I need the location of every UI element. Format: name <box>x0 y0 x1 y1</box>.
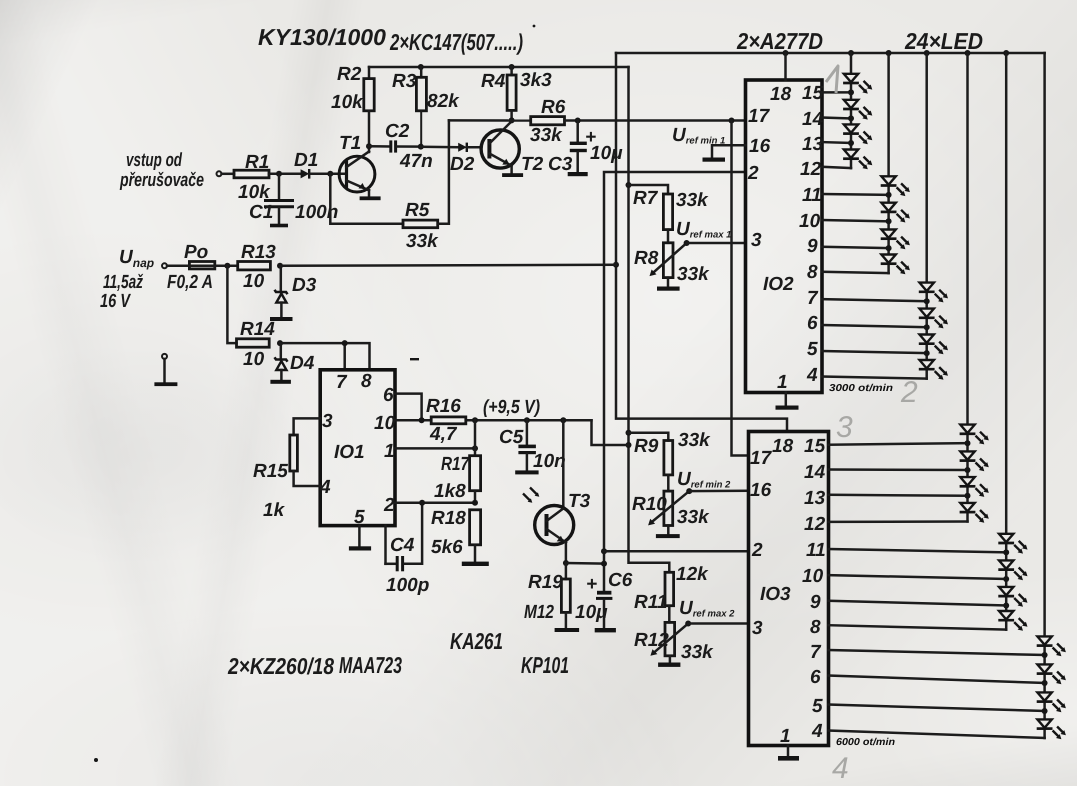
ground D4 <box>270 380 291 384</box>
wire IC102 pin10 <box>822 218 892 224</box>
IC IO2 A277D <box>746 80 824 393</box>
LED 9 <box>919 283 948 303</box>
IO1 pin2 wire <box>395 500 478 506</box>
wire IC103 pin2 <box>604 550 749 553</box>
LED 20 <box>998 611 1027 631</box>
svg-text:(+9,5 V): (+9,5 V) <box>483 397 540 418</box>
capacitor C4 <box>386 503 430 596</box>
wire IC103 pin14 <box>829 467 971 473</box>
svg-text:IO1: IO1 <box>334 442 365 463</box>
trimmer R10 <box>632 469 731 534</box>
svg-text:C5: C5 <box>499 427 524 448</box>
LED 18 <box>998 560 1027 580</box>
LED 1 <box>843 74 872 94</box>
wire IC103 pin12 <box>829 520 968 523</box>
svg-text:2: 2 <box>751 540 763 561</box>
svg-text:3: 3 <box>751 230 762 251</box>
svg-text:2×KC147(507.....): 2×KC147(507.....) <box>389 29 523 55</box>
svg-text:33k: 33k <box>406 231 439 252</box>
svg-text:1: 1 <box>384 441 395 462</box>
svg-text:47n: 47n <box>399 151 433 172</box>
svg-text:9: 9 <box>807 236 818 257</box>
svg-text:C3: C3 <box>548 154 573 175</box>
svg-text:14: 14 <box>802 109 824 130</box>
wire R4 node line <box>449 119 531 122</box>
wire IC102 pin2 net <box>601 172 746 567</box>
LED column 5 <box>1005 53 1008 630</box>
wire IC103 pin16 <box>689 490 748 493</box>
svg-text:6000 ot/min: 6000 ot/min <box>836 737 895 748</box>
svg-text:18: 18 <box>770 84 792 105</box>
input terminal Unap <box>162 263 189 268</box>
ground R10 <box>656 534 680 538</box>
LED 3 <box>843 124 872 144</box>
wire R1 to D1 <box>269 171 301 177</box>
wire IC102 pin11 <box>822 192 892 198</box>
LED 12 <box>919 360 948 380</box>
svg-text:C2: C2 <box>385 121 410 142</box>
LED 19 <box>998 587 1027 607</box>
ground T2 <box>502 173 523 177</box>
svg-text:14: 14 <box>804 462 826 483</box>
svg-text:T3: T3 <box>568 491 591 512</box>
LED 2 <box>843 100 872 120</box>
resistor R11 <box>634 564 709 622</box>
wire IC102 pin14 <box>822 115 854 121</box>
wire IC103 pin15 <box>829 440 971 446</box>
fuse Po <box>167 242 215 293</box>
LED column 6 <box>1043 53 1046 738</box>
resistor R4 <box>481 67 552 120</box>
svg-text:T1: T1 <box>339 133 361 154</box>
wire R14 to IO1 pins 7 8 <box>280 340 370 370</box>
wire IC102 pin13 <box>822 140 854 146</box>
wire IC103 pin6 <box>829 676 1048 687</box>
svg-text:4: 4 <box>811 721 823 742</box>
svg-text:4: 4 <box>832 752 849 785</box>
node T1 collector <box>366 143 372 149</box>
LED 5 <box>881 176 910 196</box>
wire node to D2 <box>421 146 458 149</box>
svg-text:1k: 1k <box>263 500 286 521</box>
svg-text:Uref max 2: Uref max 2 <box>679 598 735 620</box>
wire IC102 pin3 <box>687 242 746 245</box>
transistor T1 <box>339 133 375 196</box>
LED 10 <box>919 309 948 329</box>
svg-text:T2: T2 <box>521 154 544 175</box>
capacitor C3 <box>548 121 623 176</box>
svg-text:D3: D3 <box>292 275 317 296</box>
svg-text:R8: R8 <box>634 248 659 269</box>
input terminal vstup <box>217 171 235 176</box>
capacitor C5 <box>499 420 566 472</box>
svg-text:C6: C6 <box>608 570 633 591</box>
IC102 pin1 ground <box>776 393 799 410</box>
svg-text:3k3: 3k3 <box>520 70 552 91</box>
LED 4 <box>843 150 872 170</box>
svg-text:2: 2 <box>383 495 395 516</box>
capacitor C6 <box>575 564 633 628</box>
ground terminal left <box>154 354 177 386</box>
node R13 right <box>277 263 283 269</box>
wire IC102 pin5 <box>822 350 930 356</box>
svg-text:10: 10 <box>802 566 824 587</box>
wire IC103 pin7 <box>829 650 1048 658</box>
svg-text:R6: R6 <box>541 97 566 118</box>
svg-text:33k: 33k <box>677 264 710 285</box>
IO1 pin1 wire <box>395 445 478 451</box>
ground C5 <box>515 470 538 474</box>
LED 21 <box>1037 636 1066 656</box>
svg-text:R1: R1 <box>245 152 269 173</box>
svg-text:R14: R14 <box>240 319 275 340</box>
transistor T3 KP101 <box>523 420 591 563</box>
resistor R18 <box>431 508 481 562</box>
ground C6 <box>595 628 616 632</box>
svg-text:8: 8 <box>810 617 821 638</box>
ground R19 <box>555 628 580 632</box>
svg-text:16: 16 <box>750 480 772 501</box>
LED 22 <box>1037 664 1066 684</box>
svg-text:33k: 33k <box>677 507 710 528</box>
resistor R9 <box>629 430 712 491</box>
wire to R14 <box>227 266 236 343</box>
svg-text:33k: 33k <box>678 430 711 451</box>
svg-text:17: 17 <box>748 106 771 127</box>
LED column 3 <box>925 53 928 379</box>
ground R12 <box>658 663 680 667</box>
resistor R17 <box>434 420 481 503</box>
LED 15 <box>960 477 989 497</box>
svg-text:D2: D2 <box>450 154 475 175</box>
IO1 pin5 ground <box>349 526 371 551</box>
svg-text:Uref min 1: Uref min 1 <box>672 125 725 147</box>
svg-text:KP101: KP101 <box>521 652 569 678</box>
svg-text:8: 8 <box>361 371 372 392</box>
svg-text:R13: R13 <box>241 242 276 263</box>
svg-text:2: 2 <box>747 163 759 184</box>
svg-text:10n: 10n <box>533 451 566 472</box>
svg-text:R17: R17 <box>441 454 470 475</box>
svg-text:10μ: 10μ <box>590 143 623 164</box>
svg-text:R16: R16 <box>426 396 461 417</box>
svg-text:D1: D1 <box>294 150 318 171</box>
IC102 pin16 Uref min1 <box>672 125 746 162</box>
svg-text:R5: R5 <box>405 200 430 221</box>
wire IC102 pin8 <box>822 272 889 273</box>
svg-text:C4: C4 <box>390 535 415 556</box>
svg-text:KY130/1000: KY130/1000 <box>258 24 386 50</box>
svg-text:7: 7 <box>810 642 822 663</box>
svg-text:33k: 33k <box>681 642 714 663</box>
svg-text:R12: R12 <box>634 630 669 651</box>
wire +9.5V distribution <box>395 397 629 445</box>
svg-text:33k: 33k <box>676 190 709 211</box>
LED 17 <box>998 534 1027 554</box>
svg-text:5k6: 5k6 <box>431 537 463 558</box>
svg-text:6: 6 <box>383 385 394 406</box>
node C2 D2 <box>418 144 424 150</box>
wire pin17 branch to IC103 <box>732 121 749 456</box>
svg-text:10: 10 <box>374 413 396 434</box>
LED column 2 <box>887 53 890 273</box>
LED 8 <box>881 255 910 275</box>
LED column 4 <box>966 53 969 522</box>
transistor T2 <box>481 121 544 175</box>
svg-text:R10: R10 <box>632 494 667 515</box>
svg-text:R4: R4 <box>481 71 506 92</box>
svg-text:R19: R19 <box>528 572 563 593</box>
svg-text:vstup od: vstup od <box>126 150 182 171</box>
svg-text:1: 1 <box>777 372 788 393</box>
wire supply bus to IC103 pin18 <box>613 53 787 432</box>
svg-text:2: 2 <box>900 376 918 409</box>
IC102 pin18 stub <box>784 53 787 80</box>
ground R8 <box>657 287 680 291</box>
wire IC103 pin11 <box>829 549 1010 555</box>
wire IC103 pin13 <box>829 493 971 499</box>
capacitor C2 <box>369 121 433 172</box>
svg-text:15: 15 <box>802 83 824 104</box>
wire R13 to supply bus <box>280 265 616 266</box>
svg-text:3: 3 <box>836 411 853 444</box>
ground D3 <box>270 317 293 321</box>
wire IC102 pin9 <box>822 245 892 251</box>
LED 24 <box>1037 719 1066 739</box>
IC103 pin1 ground <box>778 746 799 761</box>
pencil mark 1 <box>826 66 838 93</box>
svg-text:10k: 10k <box>331 92 364 113</box>
wire IC103 pin3 <box>688 622 748 625</box>
wire IC103 pin9 <box>829 601 1010 609</box>
LED 23 <box>1037 692 1066 712</box>
LED 16 <box>960 503 989 523</box>
svg-text:přerušovače: přerušovače <box>119 170 204 191</box>
ground C1 <box>270 224 288 228</box>
wire LED supply rail <box>616 50 1045 56</box>
svg-text:3000 ot/min: 3000 ot/min <box>829 383 893 394</box>
svg-text:R3: R3 <box>392 71 417 92</box>
svg-text:10: 10 <box>799 211 821 232</box>
svg-text:10: 10 <box>243 271 265 292</box>
ground C3 <box>568 172 588 176</box>
svg-text:9: 9 <box>810 592 821 613</box>
speck 3 <box>533 25 536 28</box>
IO1 pin6 wire <box>395 394 422 421</box>
wire IC102 pin12 <box>822 167 851 168</box>
svg-text:24×LED: 24×LED <box>904 28 983 54</box>
svg-text:MAA723: MAA723 <box>339 652 402 678</box>
wire fuse to R13 <box>215 263 238 269</box>
svg-text:Uref min 2: Uref min 2 <box>677 469 731 491</box>
wire IC102 pin7 <box>822 298 930 304</box>
wire IC102 pin15 <box>822 89 854 95</box>
node R4 bottom <box>509 117 515 123</box>
svg-text:M12: M12 <box>524 602 554 623</box>
diode D1 <box>294 150 318 179</box>
svg-text:5: 5 <box>812 696 823 717</box>
svg-text:3: 3 <box>752 618 763 639</box>
wire IC102 pin4 <box>822 377 927 379</box>
resistor R1 <box>234 152 271 203</box>
resistor R6 <box>530 97 566 146</box>
svg-text:8: 8 <box>807 262 818 283</box>
wire R6 to IC102 pin17 <box>565 118 746 124</box>
svg-text:Uref max 1: Uref max 1 <box>676 219 731 241</box>
svg-text:17: 17 <box>750 448 773 469</box>
svg-text:Po: Po <box>184 242 208 263</box>
resistor R3 <box>392 67 460 147</box>
svg-text:R2: R2 <box>337 64 362 85</box>
node T3 emitter <box>563 560 569 566</box>
wire IC102 pin6 <box>822 324 930 330</box>
svg-text:R15: R15 <box>253 461 288 482</box>
wire IC103 pin5 <box>829 705 1048 715</box>
svg-text:33k: 33k <box>530 125 563 146</box>
resistor R19 <box>524 563 570 628</box>
resistor R13 <box>238 242 277 292</box>
LED 11 <box>919 335 948 355</box>
svg-text:4: 4 <box>319 477 331 498</box>
wire IC103 pin8 <box>829 625 1007 629</box>
resistor R14 <box>237 319 276 370</box>
svg-text:13: 13 <box>804 488 826 509</box>
svg-text:100p: 100p <box>386 575 429 596</box>
resistor R7 <box>629 185 710 243</box>
svg-text:11: 11 <box>802 185 822 206</box>
speck 1 <box>94 758 98 762</box>
resistor R15 <box>253 418 320 521</box>
ground T1 <box>360 196 381 200</box>
svg-text:100n: 100n <box>295 202 338 223</box>
svg-text:15: 15 <box>804 436 826 457</box>
LED column 1 <box>850 53 853 168</box>
node R14 right <box>277 340 283 346</box>
rail +9.5V top <box>369 64 629 70</box>
svg-text:+: + <box>586 574 597 595</box>
svg-text:16: 16 <box>749 136 771 157</box>
resistor R2 <box>331 64 374 146</box>
svg-text:R7: R7 <box>633 188 659 209</box>
wire IC103 pin4 <box>829 731 1045 739</box>
svg-text:11,5až: 11,5až <box>103 272 143 293</box>
LED 13 <box>960 425 989 445</box>
svg-text:10: 10 <box>243 349 265 370</box>
svg-text:10μ: 10μ <box>575 602 608 623</box>
svg-text:KA261: KA261 <box>450 628 503 654</box>
label 11,5 az 16V <box>100 272 143 312</box>
svg-text:7: 7 <box>336 372 348 393</box>
svg-text:6: 6 <box>810 667 821 688</box>
trimmer R12 <box>634 598 735 663</box>
wire R5 to R6 line <box>438 120 449 223</box>
op-amp IC IO1 MAA723 <box>319 370 396 528</box>
zener D3 <box>275 266 317 317</box>
LED 6 <box>881 203 910 223</box>
resistor R16 <box>426 396 466 445</box>
wire D1 to T1 base <box>309 171 346 177</box>
LED 7 <box>881 230 910 250</box>
svg-text:1k8: 1k8 <box>434 481 466 502</box>
capacitor C1 <box>249 174 338 224</box>
speck 2 <box>410 358 419 360</box>
svg-text:4,7: 4,7 <box>429 424 458 445</box>
zener D4 <box>275 343 315 380</box>
svg-text:R11: R11 <box>634 592 667 613</box>
svg-text:18: 18 <box>772 436 794 457</box>
svg-text:11: 11 <box>806 540 826 561</box>
ground R18 <box>462 562 489 566</box>
svg-text:12: 12 <box>804 514 826 535</box>
svg-text:R9: R9 <box>634 436 659 457</box>
IC IO3 A277D <box>749 432 829 748</box>
svg-text:5: 5 <box>807 339 818 360</box>
svg-text:82k: 82k <box>427 91 460 112</box>
svg-text:R18: R18 <box>431 508 466 529</box>
diode D2 <box>450 143 481 175</box>
svg-text:12k: 12k <box>676 564 709 585</box>
svg-text:16 V: 16 V <box>100 291 131 312</box>
svg-text:13: 13 <box>802 134 824 155</box>
svg-text:7: 7 <box>807 288 819 309</box>
trimmer R8 <box>634 219 731 287</box>
resistor R5 <box>403 200 439 252</box>
svg-text:2×KZ260/18: 2×KZ260/18 <box>227 653 334 679</box>
svg-text:1: 1 <box>780 726 791 747</box>
svg-text:IO3: IO3 <box>760 584 791 605</box>
svg-text:D4: D4 <box>290 353 315 374</box>
svg-text:F0,2 A: F0,2 A <box>167 272 213 293</box>
svg-text:C1: C1 <box>249 202 273 223</box>
svg-text:3: 3 <box>322 411 333 432</box>
LED 14 <box>960 451 989 471</box>
wire +9.5V bus <box>626 67 670 572</box>
svg-text:2×A277D: 2×A277D <box>736 28 823 54</box>
svg-text:6: 6 <box>807 313 818 334</box>
svg-text:Unap: Unap <box>119 247 154 270</box>
wire R5 loop <box>330 174 403 224</box>
svg-text:4: 4 <box>806 365 818 386</box>
wire IC103 pin10 <box>829 575 1010 582</box>
svg-text:12: 12 <box>800 159 822 180</box>
wire emitter to C6 <box>566 562 604 565</box>
svg-text:IO2: IO2 <box>763 274 794 295</box>
